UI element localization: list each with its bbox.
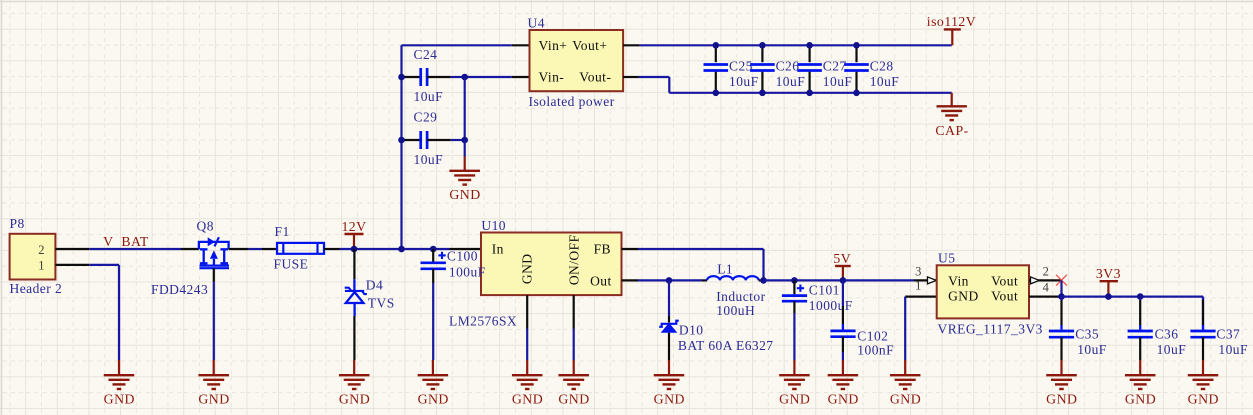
- svg-text:GND: GND: [654, 392, 685, 407]
- capacitor C101: [782, 280, 853, 313]
- svg-text:10uF: 10uF: [729, 74, 759, 89]
- svg-text:10uF: 10uF: [776, 74, 806, 89]
- ground GND: [512, 360, 543, 407]
- svg-text:F1: F1: [275, 224, 290, 239]
- U4 pin Vin-: [512, 76, 530, 78]
- svg-text:Isolated power: Isolated power: [529, 94, 615, 109]
- svg-text:V BAT: V BAT: [103, 234, 149, 249]
- wire: [638, 249, 764, 280]
- svg-text:3V3: 3V3: [1096, 266, 1121, 281]
- svg-text:C28: C28: [870, 59, 894, 74]
- svg-text:C101: C101: [809, 283, 840, 298]
- svg-text:10uF: 10uF: [414, 152, 444, 167]
- svg-text:LM2576SX: LM2576SX: [449, 313, 517, 328]
- svg-text:100nF: 100nF: [857, 343, 894, 358]
- regulator U10: [449, 218, 622, 328]
- svg-text:C26: C26: [776, 59, 800, 74]
- capacitor C24: [402, 47, 451, 104]
- svg-text:Vin+: Vin+: [539, 38, 568, 53]
- node junction: [398, 74, 405, 81]
- svg-text:GND: GND: [1188, 392, 1219, 407]
- svg-text:GND: GND: [779, 392, 810, 407]
- node junction: [853, 42, 860, 49]
- D4 pin: [353, 316, 355, 360]
- svg-text:Inductor: Inductor: [716, 289, 765, 304]
- svg-text:100uH: 100uH: [716, 303, 755, 318]
- svg-text:Q8: Q8: [197, 219, 214, 234]
- svg-text:10uF: 10uF: [1157, 342, 1187, 357]
- svg-text:GND: GND: [339, 392, 370, 407]
- svg-text:C24: C24: [414, 47, 438, 62]
- U5 pin 2: [1029, 265, 1062, 284]
- ground GND: [558, 360, 589, 407]
- svg-text:VREG_1117_3V3: VREG_1117_3V3: [938, 322, 1043, 337]
- svg-text:2: 2: [1043, 265, 1050, 279]
- ground GND: [828, 360, 859, 407]
- node junction: [759, 90, 766, 97]
- svg-text:GND: GND: [519, 253, 534, 284]
- Q8 gate pin: [213, 268, 215, 281]
- svg-text:GND: GND: [948, 289, 979, 304]
- capacitor C35: [1049, 297, 1107, 360]
- node junction: [1058, 293, 1065, 300]
- svg-text:GND: GND: [104, 392, 135, 407]
- svg-text:CAP-: CAP-: [935, 123, 968, 138]
- svg-text:Vin: Vin: [948, 274, 969, 289]
- transistor Q8: [151, 219, 248, 298]
- svg-text:4: 4: [1043, 281, 1050, 295]
- node junction: [713, 90, 720, 97]
- wire: [465, 76, 512, 78]
- svg-text:2: 2: [38, 243, 45, 257]
- U4 pin Vin+: [512, 44, 530, 46]
- svg-text:Vout: Vout: [991, 289, 1018, 304]
- node junction: [806, 42, 813, 49]
- svg-text:1: 1: [38, 258, 45, 272]
- svg-text:GND: GND: [1046, 392, 1077, 407]
- svg-text:GND: GND: [418, 392, 449, 407]
- node junction: [853, 90, 860, 97]
- TVS diode D4: [345, 278, 395, 316]
- wire: [904, 297, 906, 360]
- svg-text:GND: GND: [198, 392, 229, 407]
- capacitor C100: [421, 249, 486, 284]
- svg-text:GND: GND: [512, 392, 543, 407]
- power port 5V: [833, 251, 851, 280]
- U4 pin Vout+: [623, 44, 640, 46]
- U5 pin 1: [905, 279, 937, 297]
- svg-text:C27: C27: [823, 59, 847, 74]
- svg-text:1: 1: [915, 279, 922, 293]
- svg-text:L1: L1: [717, 262, 733, 277]
- svg-text:10uF: 10uF: [414, 89, 444, 104]
- wire: [668, 280, 670, 316]
- node junction: [760, 277, 767, 284]
- P8 pin 2: [55, 248, 89, 250]
- wire: [764, 279, 915, 281]
- svg-text:Vin-: Vin-: [539, 70, 565, 85]
- wire: [89, 248, 181, 250]
- wire: [451, 76, 465, 78]
- U10 pin In: [450, 248, 482, 250]
- wire: [400, 45, 402, 249]
- power port iso112V: [927, 14, 976, 46]
- wire: [526, 329, 528, 361]
- capacitor C36: [1128, 297, 1187, 360]
- capacitor C29: [402, 110, 451, 168]
- svg-text:Vout-: Vout-: [579, 70, 611, 85]
- wire: [464, 140, 466, 157]
- inductor L1: [702, 262, 766, 319]
- node junction: [1105, 293, 1112, 300]
- wire: [248, 248, 262, 250]
- connector P8: [10, 216, 63, 296]
- svg-text:iso112V: iso112V: [927, 14, 976, 29]
- svg-text:C36: C36: [1155, 327, 1179, 342]
- U5 pin 3: [914, 265, 937, 284]
- svg-text:C100: C100: [447, 249, 478, 264]
- isolated power module U4: [528, 16, 624, 109]
- ground GND: [654, 360, 685, 407]
- svg-text:3: 3: [915, 265, 922, 279]
- U10 pin FB: [622, 248, 639, 250]
- node junction: [840, 277, 847, 284]
- svg-text:C37: C37: [1216, 327, 1240, 342]
- svg-text:10uF: 10uF: [1077, 342, 1107, 357]
- ground GND: [779, 360, 810, 407]
- wire: [639, 77, 952, 93]
- svg-text:U10: U10: [481, 218, 506, 233]
- ground GND: [449, 157, 480, 203]
- svg-text:U5: U5: [938, 251, 955, 266]
- regulator U5: [937, 251, 1043, 337]
- svg-text:C35: C35: [1075, 327, 1099, 342]
- wire: [640, 44, 952, 46]
- capacitor C26: [750, 45, 805, 93]
- wire: [213, 282, 215, 361]
- node junction: [398, 137, 405, 144]
- wire: [464, 77, 466, 140]
- net label V BAT: [103, 234, 149, 249]
- svg-text:C25: C25: [729, 59, 753, 74]
- node junction: [806, 90, 813, 97]
- svg-text:GND: GND: [890, 392, 921, 407]
- ground GND: [418, 360, 449, 407]
- svg-text:5V: 5V: [833, 251, 851, 266]
- ground GND: [339, 360, 370, 407]
- svg-text:FUSE: FUSE: [274, 256, 309, 271]
- wire: [432, 283, 434, 360]
- svg-text:GND: GND: [449, 187, 480, 202]
- power port 3V3: [1096, 266, 1121, 297]
- svg-text:Vout+: Vout+: [572, 38, 607, 53]
- wire: [638, 279, 702, 281]
- svg-text:GND: GND: [1125, 392, 1156, 407]
- svg-text:C102: C102: [857, 329, 888, 344]
- node junction: [398, 246, 405, 253]
- svg-text:U4: U4: [528, 16, 545, 31]
- node junction: [759, 42, 766, 49]
- schottky diode D10: [659, 316, 773, 353]
- U5 pin 4: [1029, 281, 1062, 297]
- svg-text:ON/OFF: ON/OFF: [567, 234, 582, 285]
- U4 pin Vout-: [623, 76, 639, 78]
- wire: [842, 352, 844, 360]
- node junction: [461, 74, 468, 81]
- svg-text:P8: P8: [10, 216, 25, 231]
- svg-text:C29: C29: [414, 110, 438, 125]
- D10 pin: [668, 333, 670, 360]
- ground GND: [198, 360, 229, 407]
- D4 pin: [353, 249, 355, 279]
- wire: [402, 44, 512, 46]
- capacitor C28: [844, 45, 899, 93]
- node junction: [713, 42, 720, 49]
- power port CAP-: [935, 93, 968, 138]
- svg-text:10uF: 10uF: [870, 74, 900, 89]
- U10 pin GND: [526, 295, 528, 328]
- wire: [1060, 280, 1062, 296]
- svg-text:FB: FB: [594, 242, 611, 257]
- ground GND: [1125, 360, 1156, 407]
- svg-text:1000uF: 1000uF: [809, 298, 853, 313]
- P8 pin 1: [55, 264, 89, 266]
- wire: [793, 313, 795, 360]
- node junction: [351, 246, 358, 253]
- node junction: [666, 277, 673, 284]
- svg-text:GND: GND: [828, 392, 859, 407]
- wire: [340, 248, 450, 250]
- ground GND: [104, 360, 135, 407]
- svg-text:GND: GND: [558, 392, 589, 407]
- svg-text:In: In: [492, 242, 504, 257]
- node junction: [791, 277, 798, 284]
- capacitor C102: [830, 280, 894, 357]
- capacitor C25: [704, 45, 759, 93]
- capacitor C27: [797, 45, 852, 93]
- wire: [451, 139, 465, 141]
- wire: [89, 265, 119, 360]
- svg-text:100uF: 100uF: [449, 264, 486, 279]
- svg-text:TVS: TVS: [368, 295, 395, 310]
- fuse F1: [262, 224, 340, 271]
- svg-text:12V: 12V: [341, 219, 366, 234]
- node junction: [1137, 293, 1144, 300]
- svg-text:D10: D10: [679, 322, 704, 337]
- node junction: [461, 137, 468, 144]
- node junction: [430, 246, 437, 253]
- U10 pin Out: [622, 279, 639, 281]
- svg-text:Vout: Vout: [991, 274, 1018, 289]
- U10 pin ON/OFF: [573, 295, 575, 328]
- svg-text:FDD4243: FDD4243: [151, 282, 208, 297]
- ground GND: [890, 360, 921, 407]
- svg-text:D4: D4: [366, 278, 383, 293]
- svg-text:Out: Out: [590, 274, 612, 289]
- ground GND: [1188, 360, 1219, 407]
- svg-text:BAT 60A E6327: BAT 60A E6327: [678, 338, 774, 353]
- wire: [573, 329, 575, 361]
- power port 12V: [341, 219, 366, 249]
- svg-text:10uF: 10uF: [1218, 342, 1248, 357]
- svg-text:10uF: 10uF: [823, 74, 853, 89]
- no-ERC marker: [1056, 275, 1067, 286]
- svg-text:Header 2: Header 2: [10, 281, 63, 296]
- wire: [1062, 297, 1204, 330]
- ground GND: [1046, 360, 1077, 407]
- capacitor C37: [1190, 297, 1248, 360]
